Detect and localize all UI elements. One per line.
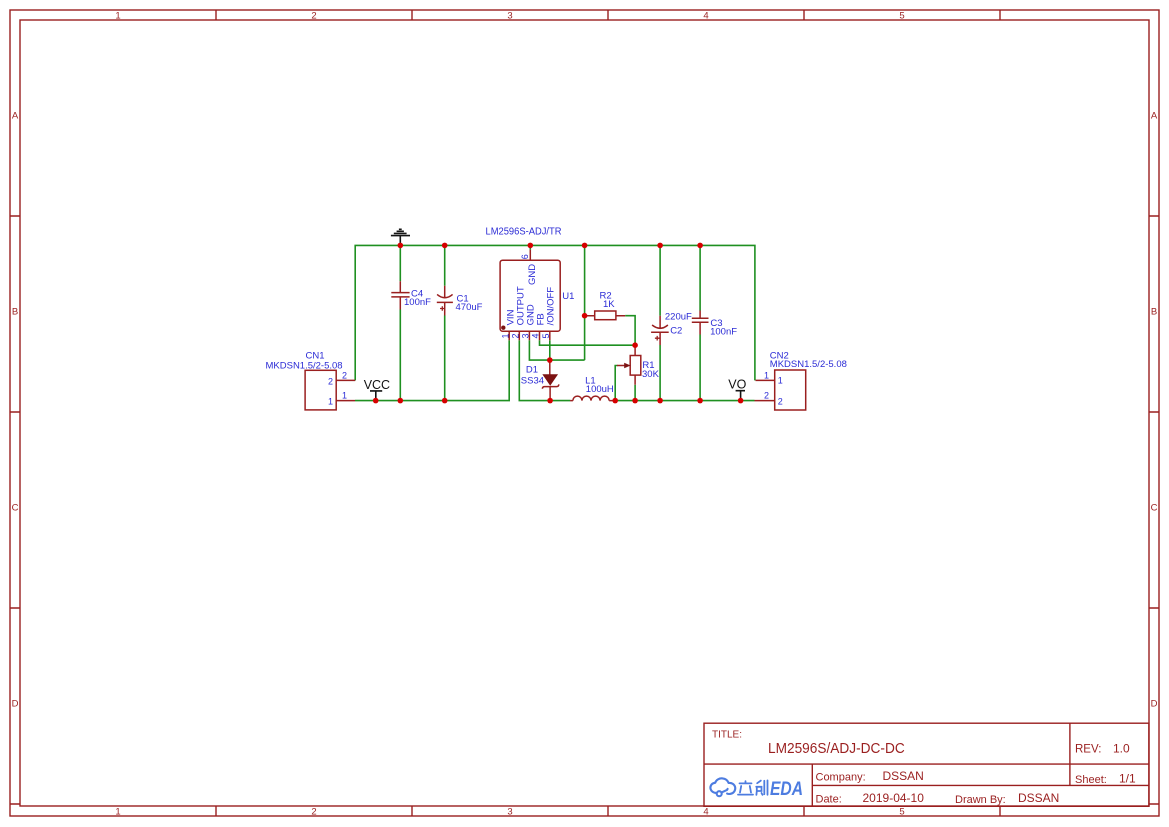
svg-text:MKDSN1.5/2-5.08: MKDSN1.5/2-5.08 bbox=[770, 359, 847, 370]
svg-text:1: 1 bbox=[342, 391, 347, 401]
svg-text:4: 4 bbox=[703, 807, 708, 818]
svg-text:2: 2 bbox=[778, 396, 783, 406]
svg-text:470uF: 470uF bbox=[456, 302, 483, 313]
svg-text:100uH: 100uH bbox=[586, 384, 614, 395]
svg-text:Sheet:: Sheet: bbox=[1075, 774, 1107, 786]
svg-text:Date:: Date: bbox=[816, 794, 842, 806]
svg-text:TITLE:: TITLE: bbox=[712, 730, 742, 741]
svg-text:5: 5 bbox=[899, 10, 904, 21]
svg-text:VO: VO bbox=[728, 378, 746, 392]
svg-text:MKDSN1.5/2-5.08: MKDSN1.5/2-5.08 bbox=[266, 360, 343, 371]
svg-text:1: 1 bbox=[328, 396, 333, 406]
svg-text:A: A bbox=[1151, 110, 1158, 121]
svg-text:DSSAN: DSSAN bbox=[883, 769, 924, 783]
svg-text:SS34: SS34 bbox=[521, 375, 544, 386]
svg-text:3: 3 bbox=[507, 10, 512, 21]
svg-text:1.0: 1.0 bbox=[1113, 742, 1130, 756]
svg-text:1: 1 bbox=[500, 333, 510, 338]
svg-text:1: 1 bbox=[764, 370, 769, 380]
svg-text:B: B bbox=[12, 306, 18, 317]
svg-text:LM2596S/ADJ-DC-DC: LM2596S/ADJ-DC-DC bbox=[768, 741, 905, 757]
svg-text:1/1: 1/1 bbox=[1119, 771, 1136, 785]
svg-text:2: 2 bbox=[764, 391, 769, 401]
svg-text:C: C bbox=[12, 502, 19, 513]
svg-text:REV:: REV: bbox=[1075, 744, 1101, 756]
svg-text:3: 3 bbox=[507, 807, 512, 818]
svg-text:Drawn By:: Drawn By: bbox=[955, 794, 1006, 806]
svg-text:2019-04-10: 2019-04-10 bbox=[863, 791, 925, 805]
svg-text:VCC: VCC bbox=[364, 378, 390, 392]
svg-text:100nF: 100nF bbox=[710, 326, 737, 337]
svg-text:4: 4 bbox=[703, 10, 708, 21]
svg-text:C: C bbox=[1151, 502, 1158, 513]
svg-text:1: 1 bbox=[778, 375, 783, 385]
svg-text:5: 5 bbox=[541, 333, 551, 338]
svg-text:C2: C2 bbox=[670, 326, 682, 337]
svg-text:1: 1 bbox=[115, 807, 120, 818]
svg-text:220uF: 220uF bbox=[665, 312, 692, 323]
svg-text:LM2596S-ADJ/TR: LM2596S-ADJ/TR bbox=[486, 226, 562, 237]
svg-text:3: 3 bbox=[521, 333, 531, 338]
svg-text:2: 2 bbox=[311, 10, 316, 21]
svg-text:Company:: Company: bbox=[816, 772, 866, 784]
svg-text:U1: U1 bbox=[562, 291, 574, 302]
svg-text:D: D bbox=[1151, 698, 1158, 709]
svg-text:A: A bbox=[12, 110, 19, 121]
svg-text:100nF: 100nF bbox=[404, 297, 431, 308]
svg-text:4: 4 bbox=[531, 333, 541, 338]
svg-text:5: 5 bbox=[899, 807, 904, 818]
svg-text:DSSAN: DSSAN bbox=[1018, 791, 1059, 805]
svg-text:/ON/OFF: /ON/OFF bbox=[546, 287, 557, 326]
svg-text:2: 2 bbox=[510, 333, 520, 338]
svg-text:D: D bbox=[12, 698, 19, 709]
svg-text:2: 2 bbox=[328, 376, 333, 386]
svg-text:2: 2 bbox=[311, 807, 316, 818]
svg-text:1: 1 bbox=[115, 10, 120, 21]
svg-text:1K: 1K bbox=[603, 299, 615, 310]
svg-text:6: 6 bbox=[520, 254, 530, 259]
svg-text:B: B bbox=[1151, 306, 1157, 317]
svg-text:GND: GND bbox=[527, 264, 538, 285]
svg-text:2: 2 bbox=[342, 370, 347, 380]
svg-text:EDA: EDA bbox=[770, 779, 803, 800]
svg-text:30K: 30K bbox=[642, 369, 660, 380]
svg-text:D1: D1 bbox=[526, 364, 538, 375]
